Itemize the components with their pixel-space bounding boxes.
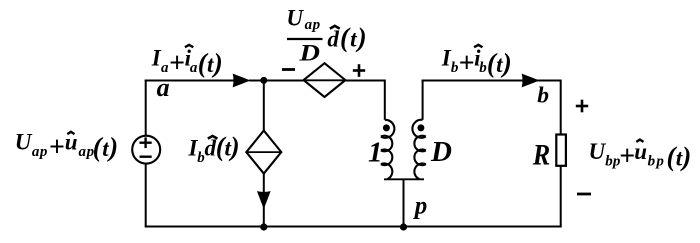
wire bottom rail <box>145 226 562 228</box>
junction dot bottom of middle branch <box>260 223 267 230</box>
wire secondary up to top right <box>422 80 424 120</box>
dependent voltage source diamond (Uap/D)d(t) <box>304 63 346 97</box>
hat over d of Ib d <box>208 136 218 139</box>
voltage source plus sign <box>140 137 152 148</box>
voltage source U1 circle <box>132 136 160 164</box>
arrowhead current Ia <box>233 74 249 86</box>
minus sign left of top diamond <box>282 68 295 71</box>
wire from arrow to diamond <box>249 80 305 82</box>
svg-text:D: D <box>298 41 320 66</box>
hat over u of uap <box>67 132 74 134</box>
junction dot node p <box>400 223 407 230</box>
svg-text:1: 1 <box>368 137 383 169</box>
transformer bottom bar <box>384 178 424 180</box>
wire resistor to bottom right corner <box>560 166 562 227</box>
svg-text:R: R <box>532 139 550 171</box>
svg-text:D: D <box>430 136 452 168</box>
wire center tap down to node p <box>403 179 405 226</box>
wire diamond to transformer primary <box>345 81 384 120</box>
diamond horizontal bar <box>304 79 346 81</box>
svg-text:p: p <box>413 193 428 220</box>
svg-text:Ubp+ubp(t): Ubp+ubp(t) <box>589 139 692 172</box>
wire top left segment <box>145 80 240 82</box>
hat over i of ia <box>185 45 193 47</box>
fraction bar <box>287 38 323 40</box>
arrowhead current source pointing down <box>258 192 270 208</box>
hat over u of ubp <box>636 140 643 142</box>
svg-text:a: a <box>157 73 170 102</box>
wire left vertical top <box>145 80 147 137</box>
plus sign output <box>576 100 588 113</box>
minus sign output <box>577 193 591 196</box>
plus sign right of top diamond <box>353 64 365 77</box>
svg-text:b: b <box>537 82 549 108</box>
middle branch wire upper <box>263 81 265 132</box>
hat over d <box>330 26 340 29</box>
transformer secondary winding coil <box>412 120 425 179</box>
transformer primary winding coil <box>381 120 394 179</box>
svg-text:Uap+uap(t): Uap+uap(t) <box>15 130 119 163</box>
svg-text:Ib+ib(t): Ib+ib(t) <box>441 46 512 79</box>
transformer secondary polarity dot <box>417 124 424 131</box>
svg-text:Uap: Uap <box>286 6 320 34</box>
transformer primary polarity dot <box>383 124 390 131</box>
dependent current source diamond Ib d(t) <box>246 131 281 174</box>
resistor R body <box>556 135 566 166</box>
hat over i of ib <box>474 45 482 47</box>
voltage source minus sign <box>140 155 152 157</box>
arrowhead current Ib <box>522 74 538 86</box>
node junction dot on top wire <box>260 77 267 84</box>
wire top right segment <box>422 81 561 135</box>
current source diamond horizontal bar <box>246 151 281 153</box>
middle branch wire lower <box>263 174 265 227</box>
wire left vertical bottom <box>145 164 147 227</box>
